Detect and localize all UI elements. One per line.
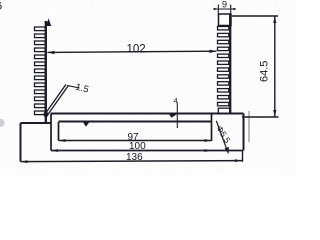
dimension 9 extension lines	[217, 5, 219, 14]
right inner wall	[211, 114, 213, 141]
left inner step wall	[58, 122, 60, 141]
svg-text:136: 136	[126, 152, 143, 163]
left inner wall	[50, 114, 52, 151]
svg-text:100: 100	[129, 141, 146, 152]
dimension 9 line	[214, 8, 236, 10]
left fin strip tip	[46, 19, 52, 27]
scan smudge left edge	[0, 119, 5, 127]
right fin strip bottom joint	[218, 108, 230, 113]
dimension 64.5 line	[274, 16, 276, 117]
base plate top edge	[51, 113, 244, 115]
left block top edge	[21, 122, 52, 124]
left fin strip teeth	[35, 27, 46, 115]
svg-text:4: 4	[174, 96, 178, 105]
left fin strip spine	[45, 21, 47, 123]
surface mark triangle	[83, 123, 89, 127]
svg-text:102: 102	[127, 44, 146, 56]
base plate bottom edge	[59, 121, 212, 123]
svg-text:6: 6	[0, 1, 2, 13]
right fin strip teeth	[218, 27, 229, 106]
dimension 64.5 top extension	[232, 15, 278, 17]
right fin strip top box	[219, 14, 232, 26]
left block left edge	[20, 123, 22, 162]
right fin strip spine	[229, 14, 231, 114]
pin leader 1.5	[45, 84, 66, 114]
dimension 4 arrow	[169, 114, 177, 118]
dimension 97 line	[59, 140, 212, 142]
dimension 100 line / base bottom	[51, 150, 243, 152]
dimension 136 line	[21, 161, 243, 162]
base right edge	[243, 114, 245, 151]
dimension 64.5 bottom extension	[242, 116, 279, 118]
dimension 102 line	[48, 51, 217, 52]
svg-text:9: 9	[222, 0, 227, 10]
right extension to 136 line	[242, 151, 244, 162]
leader phi 5.5	[216, 121, 228, 152]
faint right extension tick	[248, 111, 250, 142]
svg-text:64.5: 64.5	[259, 61, 271, 82]
dimension 4 vertical line	[176, 103, 178, 129]
scan noise	[0, 0, 296, 175]
